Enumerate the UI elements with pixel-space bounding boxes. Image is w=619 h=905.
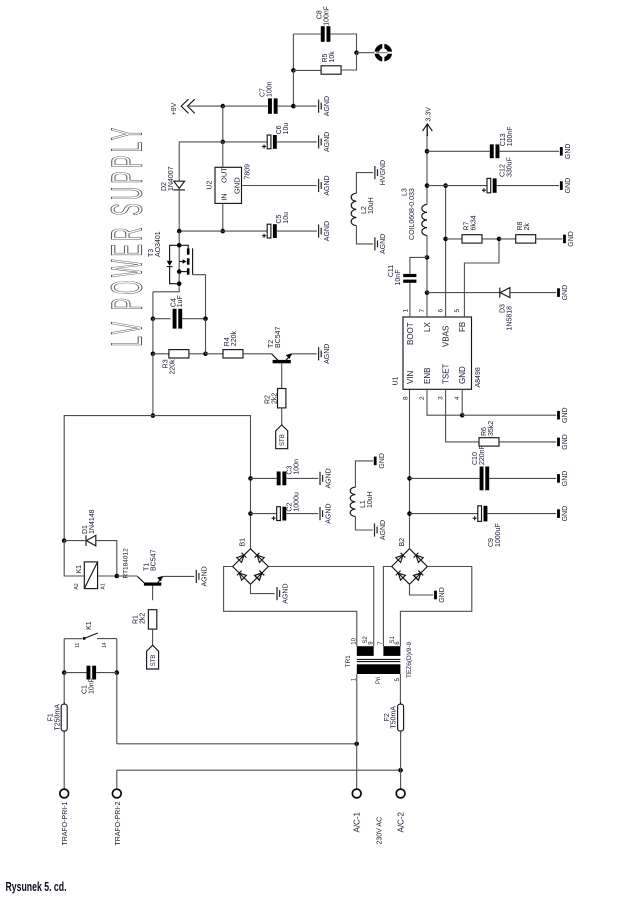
svg-text:100n: 100n bbox=[294, 459, 301, 475]
ground symbol AGND bbox=[319, 132, 331, 152]
junction C1 right node bbox=[115, 670, 120, 675]
svg-text:100n: 100n bbox=[266, 81, 273, 97]
wire ENB to GND net bbox=[427, 389, 462, 415]
wire left rail upper bbox=[152, 292, 154, 319]
ground symbol GND bbox=[560, 144, 572, 160]
ground symbol GND bbox=[557, 285, 569, 301]
svg-text:R7: R7 bbox=[464, 221, 471, 230]
svg-text:R3: R3 bbox=[163, 359, 170, 368]
svg-text:T250mA: T250mA bbox=[54, 704, 61, 731]
svg-text:2k2: 2k2 bbox=[140, 613, 147, 624]
svg-text:330uF: 330uF bbox=[507, 157, 514, 177]
ground symbol AGND bbox=[319, 96, 331, 116]
ground symbol GND bbox=[557, 506, 569, 522]
svg-text:AGND: AGND bbox=[324, 344, 331, 364]
ground symbol AGND bbox=[319, 221, 331, 241]
svg-text:B2: B2 bbox=[399, 538, 406, 547]
svg-text:GND: GND bbox=[458, 366, 467, 384]
svg-text:GND: GND bbox=[562, 285, 569, 301]
wire C13 to GND bbox=[500, 150, 560, 152]
wire L1 top to GND bbox=[355, 461, 373, 487]
junction FB node bbox=[497, 237, 502, 242]
svg-text:TRAFO-PRI-2: TRAFO-PRI-2 bbox=[115, 801, 122, 845]
transformer TR1 TEZ6(D)/9-9 bbox=[357, 646, 401, 674]
wire R8 left lead bbox=[499, 238, 516, 240]
wire L2 bottom to AGND bbox=[356, 226, 373, 244]
power symbol 3.3V bbox=[423, 124, 433, 136]
ground symbol AGND bbox=[320, 468, 332, 488]
svg-text:6: 6 bbox=[438, 309, 445, 313]
capacitor C8 100nF bbox=[321, 26, 331, 42]
IC U1 A8498 bbox=[403, 317, 472, 389]
polarized capacitor C5 10u bbox=[262, 224, 277, 238]
wire R4 to T2 collector bbox=[243, 353, 272, 355]
wire C10 to GND bbox=[489, 477, 556, 479]
wire R4 left lead bbox=[206, 353, 224, 355]
svg-text:COIL0608-0.033: COIL0608-0.033 bbox=[409, 188, 416, 240]
net flag STB bbox=[147, 645, 159, 669]
svg-text:T50mA: T50mA bbox=[391, 706, 398, 729]
terminal pad TRAFO-PRI-2 bbox=[112, 789, 121, 798]
wire U2 IN pin wire bbox=[222, 203, 224, 231]
capacitor C7 100n bbox=[268, 98, 278, 113]
wire switch left down bbox=[63, 639, 65, 673]
svg-text:100nF: 100nF bbox=[507, 126, 514, 146]
wire LX rail bbox=[426, 257, 428, 292]
svg-text:A/C-2: A/C-2 bbox=[396, 812, 405, 833]
svg-text:220k: 220k bbox=[170, 359, 177, 375]
svg-text:A/C-1: A/C-1 bbox=[352, 812, 361, 833]
svg-text:Pri: Pri bbox=[376, 677, 382, 684]
svg-text:AGND: AGND bbox=[324, 175, 331, 195]
svg-text:L3: L3 bbox=[402, 188, 409, 196]
wire OUT rail to C6 bbox=[223, 141, 267, 143]
junction C8/R5/pad node bbox=[354, 50, 359, 55]
junction C7/AGND node bbox=[291, 104, 296, 109]
polarized capacitor C6 10u bbox=[262, 135, 277, 149]
junction +9V/U2-OUT node bbox=[221, 104, 226, 109]
wire C3 left lead bbox=[251, 477, 277, 479]
resistor R6 35k2 bbox=[479, 438, 499, 446]
wire B2 minus to GND bbox=[410, 584, 434, 595]
svg-text:Rysunek 5. cd.: Rysunek 5. cd. bbox=[6, 879, 67, 894]
svg-text:TR1: TR1 bbox=[345, 655, 352, 668]
wire pin7 to B2 AC1 bbox=[383, 567, 391, 647]
ground symbol GND bbox=[563, 231, 575, 247]
svg-text:1uF: 1uF bbox=[177, 295, 184, 307]
wire C2 to AGND bbox=[286, 513, 318, 515]
diode D2 1N4007 bbox=[173, 142, 185, 231]
wire FB path bbox=[464, 239, 499, 317]
junction raw DC node bbox=[151, 413, 156, 418]
wire F1 to terminal bbox=[63, 731, 65, 789]
junction C9 node bbox=[407, 511, 412, 516]
svg-text:BC547: BC547 bbox=[151, 549, 158, 571]
terminal pad A/C-2 bbox=[396, 789, 405, 798]
junction T3 body diode node bbox=[177, 281, 182, 286]
svg-text:1000u: 1000u bbox=[294, 492, 301, 512]
svg-text:AGND: AGND bbox=[325, 503, 332, 523]
svg-text:TEZ6(D)/9-9: TEZ6(D)/9-9 bbox=[406, 642, 413, 679]
resistor R4 220k bbox=[223, 350, 243, 358]
wire left rail lower bbox=[152, 354, 154, 416]
transistor T3 AO3401 (P-MOSFET) bbox=[153, 231, 206, 319]
svg-text:HVGND: HVGND bbox=[380, 160, 387, 185]
junction D1/coil node bbox=[62, 538, 67, 543]
relay contact K1 bbox=[64, 633, 117, 640]
wire neutral line bbox=[117, 769, 401, 771]
svg-text:AGND: AGND bbox=[324, 221, 331, 241]
svg-text:C12: C12 bbox=[500, 164, 507, 177]
svg-text:1N4148: 1N4148 bbox=[89, 509, 96, 534]
svg-text:GND: GND bbox=[562, 407, 569, 423]
svg-text:1: 1 bbox=[402, 309, 409, 313]
junction C4 right node bbox=[203, 316, 208, 321]
svg-text:STB: STB bbox=[151, 655, 157, 667]
svg-text:2: 2 bbox=[419, 396, 426, 400]
svg-text:R5: R5 bbox=[322, 53, 329, 62]
wire 3.3V to C12 bbox=[427, 185, 487, 187]
wire C9 to GND bbox=[488, 513, 557, 515]
wire pin9 to B1 AC2 bbox=[268, 567, 373, 647]
svg-text:2k: 2k bbox=[524, 223, 531, 231]
svg-text:LV POWER SUPPLY: LV POWER SUPPLY bbox=[103, 125, 152, 347]
svg-text:C9: C9 bbox=[488, 538, 495, 547]
svg-text:230V AC: 230V AC bbox=[377, 817, 384, 845]
wire R3 right lead bbox=[189, 353, 206, 355]
wire +9V rail mid bbox=[223, 105, 268, 107]
connector pad (output) bbox=[374, 44, 392, 62]
wire IN rail to C5 bbox=[223, 230, 267, 232]
junction OUT rail node bbox=[221, 140, 226, 145]
wire R6 to GND bbox=[499, 441, 556, 443]
svg-text:GND: GND bbox=[439, 587, 446, 603]
wire 3.3V rail bbox=[426, 124, 428, 205]
wire U2 OUT pin wire bbox=[222, 142, 224, 167]
resistor R8 2k bbox=[516, 235, 536, 243]
svg-text:D2: D2 bbox=[161, 182, 168, 191]
wire VIN to C9 bbox=[410, 513, 478, 515]
svg-text:OUT: OUT bbox=[220, 167, 229, 183]
junction ENB/GND node bbox=[460, 413, 465, 418]
svg-text:C13: C13 bbox=[500, 133, 507, 146]
junction C3 node bbox=[248, 476, 253, 481]
wire C4 left lead bbox=[153, 318, 171, 320]
wire to GND symbol bbox=[462, 414, 556, 416]
svg-text:C6: C6 bbox=[276, 125, 283, 134]
svg-text:D3: D3 bbox=[500, 304, 507, 313]
terminal pad A/C-1 bbox=[352, 789, 361, 798]
ground symbol GND bbox=[374, 453, 386, 469]
svg-text:AGND: AGND bbox=[202, 566, 209, 586]
junction C12 node bbox=[425, 183, 430, 188]
wire C4 right lead bbox=[182, 318, 205, 320]
wire switched line to A/C-1 bbox=[117, 743, 357, 745]
svg-text:K1: K1 bbox=[86, 621, 93, 630]
wire LX to L3 bbox=[426, 235, 428, 257]
svg-text:U2: U2 bbox=[207, 180, 214, 189]
svg-text:10k: 10k bbox=[329, 51, 336, 63]
svg-text:R8: R8 bbox=[517, 221, 524, 230]
wire R7 left lead bbox=[446, 238, 462, 240]
svg-text:AGND: AGND bbox=[380, 520, 387, 540]
inductor L3 COIL0608-0.033 bbox=[422, 205, 427, 236]
terminal pad TRAFO-PRI-1 bbox=[60, 789, 69, 798]
polarized capacitor C2 1000u bbox=[272, 507, 287, 521]
wire R5 left lead bbox=[293, 69, 321, 71]
wire to F1 bbox=[63, 673, 65, 705]
inductor L2 10uH bbox=[351, 193, 356, 225]
capacitor C4 1uF bbox=[173, 309, 183, 329]
capacitor C10 220nF bbox=[480, 467, 490, 491]
svg-text:BC547: BC547 bbox=[275, 326, 282, 348]
svg-text:R4: R4 bbox=[224, 337, 231, 346]
transistor T1 BC547 (NPN) bbox=[117, 576, 194, 600]
svg-text:VIN: VIN bbox=[406, 370, 415, 384]
fuse F2 T50mA bbox=[398, 702, 404, 733]
resistor R7 6k34 bbox=[462, 235, 482, 243]
wire L2 top to HVGND bbox=[356, 173, 373, 194]
svg-text:IN: IN bbox=[220, 193, 229, 201]
svg-text:100nF: 100nF bbox=[324, 6, 331, 26]
svg-text:GND: GND bbox=[565, 178, 572, 194]
diode D3 1N5818 bbox=[427, 288, 556, 298]
wire TSET to R6 bbox=[446, 389, 479, 442]
ground symbol AGND bbox=[319, 344, 331, 364]
junction D2/T3 node bbox=[177, 229, 182, 234]
svg-text:A8498: A8498 bbox=[475, 367, 482, 387]
svg-text:AO3401: AO3401 bbox=[155, 231, 162, 257]
wire F2 to A/C-2 node bbox=[400, 731, 402, 770]
svg-text:AGND: AGND bbox=[324, 132, 331, 152]
junction T3 drain contact node bbox=[177, 269, 182, 274]
junction C1 left node bbox=[62, 670, 67, 675]
junction C4 left node bbox=[151, 316, 156, 321]
svg-text:220k: 220k bbox=[231, 331, 238, 347]
svg-text:R2: R2 bbox=[265, 395, 272, 404]
svg-text:10nF: 10nF bbox=[395, 270, 402, 286]
svg-text:AGND: AGND bbox=[282, 583, 289, 603]
wire +9V rail left bbox=[189, 105, 223, 107]
relay K1 coil RT184012 bbox=[64, 541, 117, 589]
wire down to +9V rail bbox=[292, 70, 294, 105]
wire A/C-2 stub bbox=[400, 770, 402, 789]
wire switched line down bbox=[116, 673, 118, 744]
svg-text:D1: D1 bbox=[82, 525, 89, 534]
wire VIN to C10 bbox=[410, 477, 480, 479]
svg-text:AGND: AGND bbox=[325, 468, 332, 488]
svg-text:C10: C10 bbox=[472, 452, 479, 465]
wire VBAS line bbox=[445, 186, 447, 317]
junction coil/T1 node bbox=[115, 574, 120, 579]
resistor R3 220k bbox=[169, 350, 189, 358]
svg-text:C5: C5 bbox=[276, 215, 283, 224]
junction LX/C11 node bbox=[425, 255, 430, 260]
svg-text:GND: GND bbox=[562, 471, 569, 487]
junction LX/D3 node bbox=[425, 290, 430, 295]
wire C1 left lead bbox=[64, 672, 86, 674]
svg-text:C1: C1 bbox=[82, 685, 89, 694]
wire R2 to STB bbox=[281, 408, 283, 425]
svg-text:RT184012: RT184012 bbox=[123, 548, 130, 579]
polarized capacitor C9 1000uF bbox=[473, 506, 488, 522]
svg-text:5: 5 bbox=[454, 309, 461, 313]
svg-text:3.3V: 3.3V bbox=[426, 107, 433, 122]
wire TRAFO-PRI-2 stub bbox=[116, 770, 118, 789]
ground symbol GND bbox=[557, 434, 569, 450]
svg-text:GND: GND bbox=[562, 434, 569, 450]
transistor T2 BC547 (NPN) bbox=[272, 353, 317, 388]
wire to pad bbox=[357, 52, 375, 54]
svg-text:ENB: ENB bbox=[423, 368, 432, 384]
wire raw DC to B1+ bbox=[153, 416, 251, 549]
wire B1 minus to AGND bbox=[251, 584, 275, 593]
wire raw DC to relay bbox=[64, 416, 153, 541]
junction VBAS/R7 node bbox=[443, 237, 448, 242]
junction IN rail node bbox=[221, 229, 226, 234]
wire C4-R3 tie bbox=[205, 319, 207, 354]
wire +9V to OUT rail bbox=[222, 106, 224, 142]
svg-text:7809: 7809 bbox=[245, 164, 252, 180]
svg-text:C8: C8 bbox=[317, 10, 324, 19]
svg-text:C7: C7 bbox=[259, 88, 266, 97]
ground symbol AGND bbox=[319, 175, 331, 195]
svg-text:10u: 10u bbox=[283, 212, 290, 224]
wire pin10 to B1 AC1 bbox=[224, 567, 357, 647]
ground symbol GND bbox=[557, 471, 569, 487]
junction R3 left node bbox=[151, 352, 156, 357]
wire OUT rail left bbox=[179, 141, 223, 143]
wire C2 left lead bbox=[251, 513, 277, 515]
wire C3 to AGND bbox=[286, 477, 318, 479]
svg-text:TRAFO-PRI-1: TRAFO-PRI-1 bbox=[62, 801, 69, 845]
wire R1 to STB bbox=[152, 629, 154, 645]
wire L1 bottom to AGND bbox=[355, 516, 372, 530]
svg-text:1N4007: 1N4007 bbox=[168, 166, 175, 191]
svg-text:T3: T3 bbox=[148, 249, 155, 257]
ground symbol AGND bbox=[375, 520, 387, 540]
svg-text:BOOT: BOOT bbox=[406, 322, 415, 345]
svg-text:GND: GND bbox=[568, 231, 575, 247]
svg-text:C3: C3 bbox=[287, 466, 294, 475]
resistor R1 2k2 bbox=[148, 610, 156, 629]
svg-text:1N5818: 1N5818 bbox=[507, 306, 514, 331]
ground symbol GND bbox=[560, 178, 572, 194]
svg-text:T1: T1 bbox=[144, 563, 151, 571]
svg-text:A2: A2 bbox=[74, 583, 80, 589]
wire C8 right to junction bbox=[330, 34, 356, 53]
svg-text:TSET: TSET bbox=[441, 363, 450, 384]
wire IN rail left bbox=[179, 230, 223, 232]
svg-text:LX: LX bbox=[423, 322, 432, 332]
ground symbol HVGND bbox=[375, 160, 387, 185]
capacitor C13 100nF bbox=[490, 144, 500, 158]
diode D1 1N4148 bbox=[64, 535, 117, 576]
svg-text:FB: FB bbox=[458, 322, 467, 332]
ground symbol AGND bbox=[277, 583, 289, 603]
junction VBAS/3.3V node bbox=[443, 183, 448, 188]
wire pin5 to F2 bbox=[399, 674, 401, 704]
svg-text:U1: U1 bbox=[393, 376, 400, 385]
wire R5 right lead bbox=[341, 53, 356, 70]
svg-text:14: 14 bbox=[102, 642, 108, 648]
svg-text:10uH: 10uH bbox=[368, 197, 375, 214]
resistor R5 10k bbox=[321, 66, 341, 74]
wire C8 left lead bbox=[293, 33, 321, 35]
voltage regulator U2 7809 bbox=[215, 167, 242, 203]
svg-text:7: 7 bbox=[419, 309, 426, 313]
power symbol +9V bbox=[181, 99, 195, 113]
wire R8 to GND bbox=[536, 238, 563, 240]
ground symbol GND bbox=[434, 587, 446, 603]
svg-text:C2: C2 bbox=[287, 503, 294, 512]
svg-text:4: 4 bbox=[454, 396, 461, 400]
junction A/C-1 node bbox=[354, 742, 359, 747]
svg-text:VBAS: VBAS bbox=[441, 326, 450, 347]
svg-text:+9V: +9V bbox=[171, 102, 178, 115]
svg-text:35k2: 35k2 bbox=[488, 421, 495, 436]
svg-text:GND: GND bbox=[565, 144, 572, 160]
svg-text:GND: GND bbox=[379, 453, 386, 469]
svg-text:8: 8 bbox=[402, 396, 409, 400]
net flag STB bbox=[276, 425, 288, 449]
svg-text:AGND: AGND bbox=[324, 96, 331, 116]
wire switch right down bbox=[116, 639, 118, 673]
wire R3 left lead bbox=[153, 353, 169, 355]
svg-text:3: 3 bbox=[438, 396, 445, 400]
svg-text:6k34: 6k34 bbox=[471, 215, 478, 230]
svg-text:10uH: 10uH bbox=[367, 491, 374, 508]
wire A/C-1 stub bbox=[356, 744, 358, 789]
svg-text:10nF: 10nF bbox=[89, 678, 96, 694]
wire 3.3V to C13 bbox=[427, 150, 490, 152]
svg-text:R6: R6 bbox=[481, 427, 488, 436]
svg-text:STB: STB bbox=[280, 434, 286, 446]
ground symbol AGND bbox=[375, 234, 387, 254]
wire to AGND bbox=[293, 105, 316, 107]
capacitor C1 10nF bbox=[87, 666, 97, 680]
ground symbol AGND bbox=[196, 566, 208, 586]
wire pin1 to A/C-1 bbox=[356, 674, 358, 744]
wire LX pin wire bbox=[426, 293, 428, 317]
wire C5 to AGND bbox=[277, 230, 317, 232]
junction T3 source node bbox=[177, 243, 182, 248]
wire C12 to GND bbox=[497, 185, 559, 187]
bridge rectifier B2 bbox=[392, 549, 428, 585]
svg-text:220nF: 220nF bbox=[479, 445, 486, 465]
fuse F1 T250mA bbox=[61, 702, 67, 733]
svg-text:2k2: 2k2 bbox=[272, 393, 279, 404]
bridge rectifier B1 bbox=[233, 549, 269, 585]
polarized capacitor C12 330uF bbox=[482, 178, 497, 192]
inductor L1 10uH bbox=[350, 487, 355, 516]
svg-text:GND: GND bbox=[233, 177, 242, 194]
junction A/C-2 node bbox=[398, 768, 403, 773]
wire C1 right lead bbox=[96, 672, 117, 674]
capacitor C3 100n bbox=[277, 472, 287, 486]
wire VIN rail bbox=[409, 389, 411, 548]
svg-text:R1: R1 bbox=[133, 615, 140, 624]
wire C7 right bbox=[278, 105, 294, 107]
wire U1 GND pin wire bbox=[461, 389, 463, 415]
wire pin6 to B2 AC2 bbox=[400, 567, 471, 647]
svg-text:T2: T2 bbox=[268, 340, 275, 348]
svg-text:10u: 10u bbox=[283, 123, 290, 135]
capacitor C11 10nF (bootstrap) bbox=[403, 257, 427, 317]
wire left rail C8-R5 bbox=[292, 34, 294, 70]
junction C2 node bbox=[248, 511, 253, 516]
svg-text:K1: K1 bbox=[76, 565, 83, 574]
